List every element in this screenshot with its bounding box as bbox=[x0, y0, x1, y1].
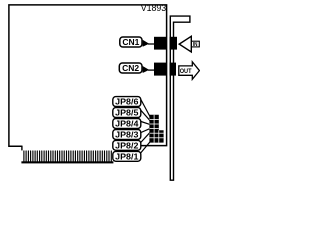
svg-text:JP8/2: JP8/2 bbox=[115, 140, 139, 150]
pointer line JP8/2 bbox=[140, 132, 150, 143]
connector CN2 bbox=[154, 63, 167, 76]
svg-text:IN: IN bbox=[193, 42, 198, 48]
jumper block JP8 bbox=[149, 115, 163, 143]
pointer line JP8/5 bbox=[141, 110, 151, 121]
notch step bbox=[21, 146, 23, 151]
connector CN2 barrel bbox=[170, 63, 177, 76]
svg-text:V1893: V1893 bbox=[141, 3, 167, 13]
svg-text:JP8/5: JP8/5 bbox=[115, 108, 139, 118]
label JP8/3 bbox=[113, 129, 141, 139]
label CN1 bbox=[120, 37, 142, 47]
svg-text:OUT: OUT bbox=[180, 68, 192, 75]
svg-text:JP8/4: JP8/4 bbox=[115, 118, 139, 128]
arrow IN bbox=[179, 36, 199, 52]
bracket bbox=[170, 15, 191, 181]
pointer line JP8/1 bbox=[140, 140, 152, 155]
svg-text:CN1: CN1 bbox=[122, 37, 139, 47]
svg-text:CN2: CN2 bbox=[122, 63, 139, 73]
pointer line JP8/3 bbox=[141, 128, 150, 132]
edge connector comb bbox=[21, 151, 113, 163]
connector CN1 bbox=[154, 37, 167, 50]
label JP8/6 bbox=[113, 97, 141, 107]
arrow OUT bbox=[179, 62, 200, 80]
label JP8/5 bbox=[113, 108, 141, 118]
pointer CN2 bbox=[143, 66, 155, 73]
svg-text:JP8/1: JP8/1 bbox=[115, 151, 139, 161]
label JP8/2 bbox=[113, 140, 141, 150]
svg-text:JP8/3: JP8/3 bbox=[115, 129, 139, 139]
label JP8/1 bbox=[113, 151, 141, 161]
svg-text:JP8/6: JP8/6 bbox=[115, 97, 139, 107]
card outline bbox=[9, 5, 167, 146]
pointer CN1 bbox=[143, 40, 155, 47]
pointer line JP8/4 bbox=[141, 122, 150, 125]
connector CN1 barrel bbox=[170, 37, 178, 50]
pointer line JP8/6 bbox=[140, 98, 150, 118]
label JP8/4 bbox=[113, 118, 141, 128]
label CN2 bbox=[119, 63, 142, 73]
